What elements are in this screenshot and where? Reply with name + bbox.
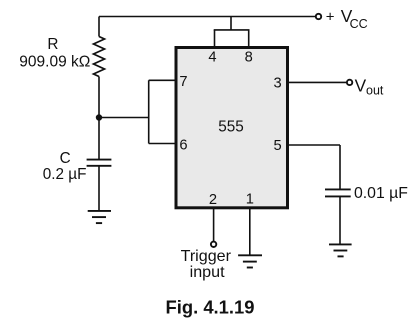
svg-text:7: 7 <box>179 74 187 90</box>
svg-text:R: R <box>47 36 58 53</box>
wire pin 5 stub <box>289 144 340 146</box>
IC U1 555 timer body <box>176 48 288 208</box>
wire pin 4 stub <box>214 30 216 48</box>
wire resistor bottom lead to node <box>98 77 100 118</box>
svg-text:+: + <box>326 9 335 26</box>
ground below C <box>88 211 111 223</box>
terminal Vout <box>347 80 352 85</box>
capacitor C2 0.01uF plates <box>325 189 351 196</box>
wire resistor top lead <box>98 17 100 37</box>
svg-text:1: 1 <box>246 192 254 208</box>
svg-text:V: V <box>355 75 367 95</box>
svg-text:5: 5 <box>274 138 282 154</box>
wire pin 1 to ground <box>249 209 251 255</box>
wire node down to capacitor C <box>98 118 100 160</box>
svg-text:8: 8 <box>245 50 253 66</box>
wire bar joining pins 4 and 8 <box>214 29 250 31</box>
svg-text:4: 4 <box>208 50 216 66</box>
svg-text:out: out <box>366 84 384 98</box>
wire pin 2 trigger lead <box>213 209 215 242</box>
svg-text:C: C <box>60 150 71 167</box>
ground below pin 1 <box>238 255 262 267</box>
svg-text:CC: CC <box>350 17 368 31</box>
wire capacitor to ground <box>339 196 341 244</box>
wire pin 3 to Vout <box>289 81 347 83</box>
label + Vcc <box>326 6 368 31</box>
svg-text:3: 3 <box>274 75 282 91</box>
label Trigger input <box>181 247 232 281</box>
svg-text:2: 2 <box>209 192 217 208</box>
svg-text:909.09 kΩ: 909.09 kΩ <box>19 54 90 71</box>
terminal +Vcc <box>316 14 321 19</box>
node junction dot <box>96 114 102 120</box>
wire top rail to +Vcc <box>99 16 316 18</box>
wire pin 8 stub <box>248 30 250 48</box>
resistor R1 zigzag <box>94 37 105 77</box>
wire vertical between pin7 and pin6 <box>148 80 150 143</box>
svg-text:0.2 µF: 0.2 µF <box>43 166 87 183</box>
wire pin 7 stub <box>149 79 176 81</box>
svg-text:input: input <box>190 263 225 281</box>
svg-text:0.01 µF: 0.01 µF <box>354 185 408 202</box>
label Vout <box>355 75 384 97</box>
wire pin 6 stub <box>149 143 176 145</box>
wire capacitor C to ground <box>98 166 100 211</box>
svg-text:555: 555 <box>218 118 244 135</box>
ground below 0.01uF <box>329 244 352 256</box>
capacitor C plates <box>87 160 112 166</box>
wire pin 5 down to capacitor <box>339 145 341 189</box>
terminal trigger input <box>211 242 216 247</box>
wire node to pins 7/6 <box>99 117 149 119</box>
wire Vcc stub down to 4/8 bar <box>230 17 232 30</box>
svg-text:6: 6 <box>179 138 187 154</box>
svg-text:Fig. 4.1.19: Fig. 4.1.19 <box>166 297 255 318</box>
